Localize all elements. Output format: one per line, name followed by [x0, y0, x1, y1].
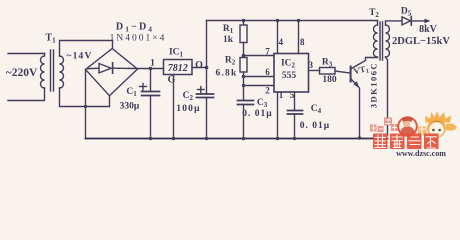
transformer T2 secondary winding — [386, 25, 390, 57]
wire: Vcc top rail — [207, 20, 378, 22]
svg-text:6.8k: 6.8k — [216, 69, 238, 79]
svg-text:5: 5 — [290, 90, 295, 100]
wire: T1 secondary top lead — [60, 41, 113, 57]
svg-text:1k: 1k — [223, 35, 234, 45]
red mini characters — [370, 118, 398, 133]
svg-text:180: 180 — [322, 75, 337, 85]
wire: pin 3 output — [309, 70, 320, 72]
wire: T1 secondary bottom lead — [60, 88, 110, 107]
resistor R1 — [243, 21, 245, 26]
wire: Vcc riser — [206, 21, 208, 68]
bridge rectifier D1-D4 diamond — [86, 49, 138, 96]
transformer T2 primary winding — [374, 21, 378, 58]
IC1 regulator 7812 box — [164, 60, 193, 75]
wire: bridge minus to ground rail — [85, 70, 87, 139]
svg-text:~14V: ~14V — [66, 51, 92, 61]
red badge circle — [398, 117, 417, 136]
wire: pin 6 — [243, 72, 245, 86]
junction crossing blob — [84, 105, 87, 108]
bridge inner diode — [87, 67, 99, 69]
transformer T1 core — [50, 50, 52, 91]
wire: R3 to base — [335, 71, 350, 73]
wire: pin 5 drop — [294, 92, 296, 111]
svg-text:G: G — [168, 74, 176, 85]
svg-text:100μ: 100μ — [176, 104, 200, 114]
svg-text:1: 1 — [150, 59, 155, 69]
wire: T2 secondary top to D5 — [386, 21, 403, 25]
wire: pin 1 to ground — [277, 92, 279, 139]
svg-text:~220V: ~220V — [6, 67, 38, 79]
wire: pin 2 — [242, 84, 245, 87]
svg-text:0. 01μ: 0. 01μ — [300, 121, 330, 131]
svg-text:3DK106C: 3DK106C — [369, 62, 379, 108]
svg-text:0. 01μ: 0. 01μ — [242, 109, 272, 119]
capacitor C1 — [150, 69, 152, 92]
wire: bridge plus output to regulator — [138, 68, 164, 70]
wire: R1 to R2, pin7 node — [243, 43, 245, 58]
ground bottom rail — [86, 138, 388, 140]
wire: pin 7 — [244, 55, 275, 57]
svg-text:2: 2 — [265, 85, 270, 95]
capacitor C2 — [206, 68, 208, 95]
resistor R2 — [240, 58, 247, 73]
svg-text:O: O — [195, 60, 203, 71]
watermark — [370, 111, 457, 158]
wire: pin 8 riser — [298, 21, 300, 54]
capacitor C3 — [243, 86, 245, 101]
svg-text:7812: 7812 — [168, 63, 188, 74]
svg-text:7: 7 — [265, 46, 270, 56]
wire: pin 4 riser — [277, 21, 279, 54]
wire: T2 secondary bottom — [386, 57, 388, 135]
resistor R3 — [320, 68, 336, 75]
svg-text:555: 555 — [282, 71, 297, 81]
svg-text:330μ: 330μ — [120, 101, 140, 111]
IC2 555 box — [274, 54, 309, 93]
wire: regulator output — [192, 67, 207, 69]
svg-text:D1−D4: D1−D4 — [116, 22, 154, 34]
svg-text:6: 6 — [265, 67, 270, 77]
wire: HV output with arrow — [411, 20, 426, 22]
orange character between — [418, 127, 427, 136]
wire: AC input top stub — [8, 53, 45, 55]
capacitor C4 — [288, 110, 303, 112]
diode D5 — [402, 17, 411, 25]
transformer T1 secondary winding — [60, 56, 64, 88]
transistor VT1 — [350, 66, 352, 83]
svg-text:8: 8 — [300, 37, 305, 47]
big red characters wei ku yi xia — [373, 134, 439, 150]
transformer T1 primary winding — [41, 54, 45, 89]
svg-text:2DGL−15kV: 2DGL−15kV — [392, 36, 450, 47]
wire: AC input bottom stub — [8, 88, 45, 101]
wire: regulator ground lead — [173, 75, 175, 139]
transformer T2 core — [379, 22, 381, 60]
svg-text:1N4001×4: 1N4001×4 — [110, 33, 167, 43]
svg-text:www.dzsc.com: www.dzsc.com — [396, 149, 446, 156]
svg-text:8kV: 8kV — [419, 24, 438, 35]
svg-text:4: 4 — [279, 37, 284, 47]
svg-text:1: 1 — [279, 90, 284, 100]
node: C1 tap junction — [149, 67, 153, 71]
mascot sun face with crown and arm — [425, 111, 457, 138]
svg-text:3: 3 — [309, 60, 314, 70]
